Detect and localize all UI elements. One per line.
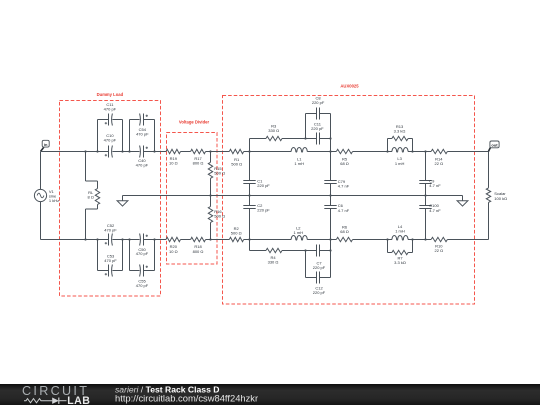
wire node B vertical 2 — [330, 184, 332, 206]
ground right — [457, 196, 468, 207]
wire bottom main 10 — [447, 239, 488, 241]
svg-text:4.7 nF: 4.7 nF — [338, 208, 350, 213]
wire branch bottom 2 — [282, 250, 317, 252]
capacitor C10 — [104, 133, 117, 157]
svg-text:68 Ω: 68 Ω — [340, 161, 349, 166]
svg-text:10 Ω: 10 Ω — [169, 160, 178, 165]
svg-text:22 Ω: 22 Ω — [435, 248, 444, 253]
wire branch bottom 3 — [320, 250, 331, 252]
junction dots top row — [84, 150, 426, 152]
svg-text:330 Ω: 330 Ω — [268, 128, 279, 133]
resistor R14 — [431, 149, 447, 166]
wire bottom main 7 — [307, 239, 336, 241]
capacitor C1 — [243, 178, 270, 188]
capacitor C55 loop — [130, 240, 155, 288]
annotation box AUX0025 — [223, 83, 475, 304]
svg-text:1 mH: 1 mH — [294, 161, 304, 166]
resistor R3 — [266, 123, 282, 140]
node flag in — [41, 140, 50, 151]
capacitor C53 loop — [98, 240, 123, 277]
wire bottom main 2 — [112, 239, 139, 241]
svg-text:800 Ω: 800 Ω — [193, 160, 204, 165]
svg-text:1 mH: 1 mH — [395, 228, 405, 233]
resistor R13 loop — [388, 124, 413, 152]
source V1 — [34, 189, 59, 203]
capacitor C11 dummy-load loop — [98, 102, 123, 151]
svg-text:330 Ω: 330 Ω — [268, 260, 279, 265]
svg-text:68 Ω: 68 Ω — [340, 229, 349, 234]
capacitor C50 — [136, 234, 149, 257]
capacitor C40 — [136, 146, 149, 168]
svg-text:500 Ω: 500 Ω — [214, 214, 225, 219]
wire node A vertical bottom — [249, 209, 251, 251]
ground left — [117, 196, 128, 207]
footer title text — [115, 385, 258, 404]
svg-text:220 pF: 220 pF — [257, 207, 270, 212]
wire branch top 3 — [320, 138, 331, 140]
svg-text:470 pF: 470 pF — [104, 138, 117, 143]
wire top main 6 — [244, 151, 292, 153]
capacitor C11 filter — [311, 122, 324, 145]
svg-text:3.3 kΩ: 3.3 kΩ — [394, 128, 406, 133]
resistor R6 — [336, 224, 352, 241]
svg-text:800 Ω: 800 Ω — [193, 249, 204, 254]
svg-text:220 pF: 220 pF — [313, 265, 326, 270]
svg-text:Voltage Divider: Voltage Divider — [179, 120, 210, 125]
resistor R7 loop — [388, 240, 413, 265]
wire V1 bottom — [40, 202, 42, 240]
svg-text:470 pF: 470 pF — [104, 227, 117, 232]
wire top main 8 — [353, 151, 392, 153]
wire bottom main 9 — [408, 239, 431, 241]
inductor L1 — [291, 148, 307, 166]
svg-text:220 pF: 220 pF — [312, 100, 325, 105]
CircuitLab logo — [22, 384, 90, 405]
wire node B vertical 1 — [330, 139, 332, 181]
svg-text:470 pF: 470 pF — [136, 163, 149, 168]
capacitor C7 — [313, 245, 326, 271]
wire top main 4 — [181, 151, 191, 153]
capacitor C8 loop — [306, 96, 331, 139]
svg-text:http://circuitlab.com/csw84ff2: http://circuitlab.com/csw84ff24hzkr — [115, 393, 258, 404]
wire top main 9 — [408, 151, 431, 153]
wire mid — [123, 195, 463, 197]
wire node B vertical 3 — [330, 209, 332, 278]
wire C9 vertical bottom — [425, 209, 427, 240]
junction dots branch bottom — [304, 249, 331, 251]
wire bottom main 1 — [41, 239, 109, 241]
svg-text:470 pF: 470 pF — [136, 132, 149, 137]
wire bottom main 6 — [244, 239, 292, 241]
svg-text:500 Ω: 500 Ω — [214, 170, 225, 175]
svg-text:220 pF: 220 pF — [313, 290, 326, 295]
svg-text:1 mH: 1 mH — [395, 161, 405, 166]
wire top main 2 — [112, 151, 139, 153]
wire V1 top — [40, 152, 42, 190]
capacitor C79 — [324, 179, 349, 189]
resistor R19 — [166, 149, 181, 165]
wire top main 1 — [41, 151, 109, 153]
capacitor C12 loop — [306, 251, 331, 295]
svg-text:4.7 nF: 4.7 nF — [338, 183, 350, 188]
svg-text:3.3 kΩ: 3.3 kΩ — [394, 260, 406, 265]
wire top main 10 — [447, 151, 488, 153]
wire C9 vertical top — [425, 152, 427, 181]
resistor R17 — [191, 149, 206, 165]
resistor R15 — [208, 152, 225, 196]
resistor Scalar — [486, 152, 507, 240]
resistor R5 — [336, 149, 352, 166]
svg-text:1 kHz: 1 kHz — [49, 198, 59, 203]
svg-text:100 kΩ: 100 kΩ — [494, 196, 507, 201]
svg-text:470 pF: 470 pF — [136, 283, 149, 288]
svg-text:470 pF: 470 pF — [104, 258, 117, 263]
wire bottom main 3 — [144, 239, 167, 241]
svg-text:8 Ω: 8 Ω — [88, 195, 94, 200]
svg-text:1 mH: 1 mH — [294, 230, 304, 235]
resistor R10 — [431, 237, 447, 253]
wire top main 7 — [307, 151, 336, 153]
inductor L3 — [392, 148, 408, 166]
wire C9 vertical mid — [425, 184, 427, 206]
svg-text:22 Ω: 22 Ω — [435, 161, 444, 166]
svg-text:10 Ω: 10 Ω — [169, 249, 178, 254]
svg-text:AUX0025: AUX0025 — [340, 83, 359, 88]
junction dots bottom row — [84, 238, 426, 240]
svg-text:Dummy Load: Dummy Load — [97, 92, 124, 97]
svg-text:in: in — [44, 142, 48, 147]
svg-text:500 Ω: 500 Ω — [231, 230, 242, 235]
capacitor C6 — [324, 203, 349, 213]
junction dots mid row — [209, 194, 426, 196]
resistor RL — [86, 152, 100, 240]
wire bottom main 8 — [353, 239, 392, 241]
wire top main 3 — [144, 151, 167, 153]
svg-text:220 pF: 220 pF — [311, 126, 324, 131]
capacitor C9 — [419, 179, 441, 189]
wire branch bottom 1 — [250, 250, 267, 252]
svg-text:LAB: LAB — [67, 395, 90, 405]
wire node A vertical top — [249, 139, 251, 181]
footer bar — [0, 384, 540, 405]
wire bottom main 4 — [181, 239, 191, 241]
wire top main 5 — [206, 151, 230, 153]
wire branch top 2 — [282, 138, 317, 140]
capacitor C2 — [243, 203, 270, 213]
svg-text:4.7 nF: 4.7 nF — [429, 183, 441, 188]
capacitor C52 — [104, 223, 117, 246]
annotation box Dummy Load — [60, 92, 161, 296]
resistor R2 — [229, 226, 243, 242]
capacitor C100 — [419, 203, 441, 213]
resistor R18 — [191, 237, 206, 254]
resistor R1 — [229, 149, 243, 166]
wire bottom main 5 — [206, 239, 230, 241]
resistor R20 — [166, 237, 181, 254]
resistor R4 — [266, 248, 282, 264]
annotation box Voltage Divider — [167, 120, 218, 264]
wire node A vertical mid — [249, 184, 251, 206]
svg-text:out: out — [491, 143, 498, 148]
wire branch top 1 — [250, 138, 267, 140]
svg-text:470 pF: 470 pF — [104, 107, 117, 112]
inductor L2 — [291, 225, 307, 240]
svg-text:220 pF: 220 pF — [257, 183, 270, 188]
svg-text:4.7 nF: 4.7 nF — [429, 208, 441, 213]
capacitor C54 loop — [130, 114, 155, 152]
junction dots branch top — [304, 137, 331, 139]
inductor L4 — [392, 224, 408, 240]
svg-text:500 Ω: 500 Ω — [231, 162, 242, 167]
resistor R16 — [208, 196, 225, 240]
svg-text:470 pF: 470 pF — [136, 251, 149, 256]
node flag out — [489, 141, 500, 151]
